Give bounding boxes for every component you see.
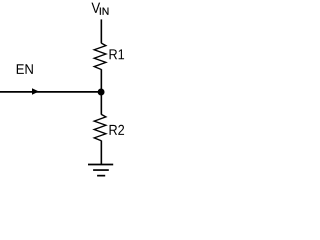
node EN label <box>17 64 33 74</box>
wire R1 to node <box>100 69 102 92</box>
wire EN input <box>0 91 101 93</box>
resistor R2 <box>94 114 106 140</box>
wire R2 to ground <box>100 141 102 165</box>
ground <box>88 165 113 176</box>
node VIN label IN subscript <box>100 8 109 15</box>
R1 value label <box>110 49 125 59</box>
node VIN label V <box>91 3 100 13</box>
junction dot node <box>98 89 105 96</box>
arrowhead on EN wire <box>32 88 39 94</box>
R2 value label <box>110 125 125 135</box>
wire node to R2 <box>100 92 102 115</box>
wire VIN to R1 <box>100 19 102 43</box>
resistor R1 <box>94 43 106 69</box>
